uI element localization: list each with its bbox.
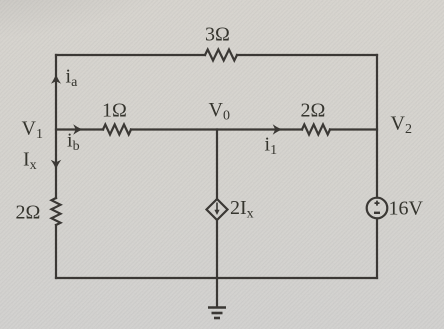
voltage source plus sign xyxy=(375,201,380,206)
dependent source 2Ix diamond xyxy=(207,199,228,220)
wire middle-center segment xyxy=(131,128,302,130)
resistor R-2ohm-left zigzag xyxy=(52,198,61,225)
resistor R-1ohm zigzag xyxy=(103,125,131,135)
wire right lower xyxy=(376,219,378,279)
wire left upper xyxy=(55,55,57,198)
arrow i_b on middle wire (right) xyxy=(73,124,83,135)
voltage source V-16V circle xyxy=(367,198,388,219)
svg-text:1Ω: 1Ω xyxy=(102,100,127,122)
arrow I_x on left wire (down) xyxy=(51,160,62,170)
resistor R-3ohm zigzag xyxy=(205,50,237,61)
arrow i_1 on middle wire (right) xyxy=(273,124,283,135)
svg-text:3Ω: 3Ω xyxy=(205,24,230,46)
wire right upper xyxy=(376,55,378,198)
voltage source minus sign xyxy=(374,212,380,214)
wire center vertical upper xyxy=(216,130,218,200)
ground stub wire xyxy=(216,278,218,306)
svg-text:2Ω: 2Ω xyxy=(301,100,326,122)
ground symbol bars xyxy=(208,308,226,319)
wire top-right segment xyxy=(237,54,377,56)
resistor R-2ohm-mid zigzag xyxy=(302,125,330,135)
wire center vertical lower xyxy=(216,220,218,278)
wire left lower xyxy=(55,225,57,278)
wire middle-left segment xyxy=(56,128,103,130)
wire top-left segment xyxy=(56,54,205,56)
arrow i_a on left wire (up) xyxy=(51,74,61,84)
svg-text:2Ω: 2Ω xyxy=(16,202,41,224)
dependent source internal arrow (down) xyxy=(214,203,219,216)
wire middle-right segment xyxy=(330,128,377,130)
wire bottom xyxy=(56,277,377,279)
svg-text:16V: 16V xyxy=(389,198,424,220)
